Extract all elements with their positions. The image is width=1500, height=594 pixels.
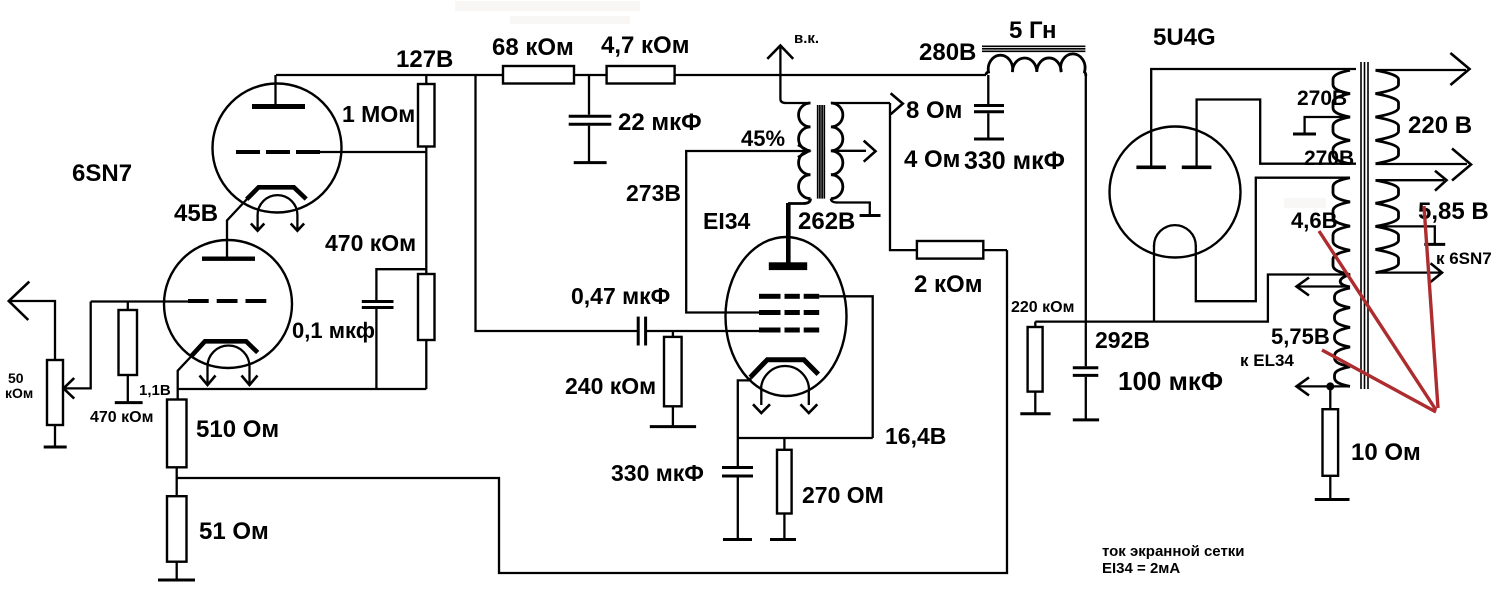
wire 292В node	[1035, 275, 1350, 322]
svg-text:270В: 270В	[1297, 87, 1347, 110]
filament right leg to 4,6В winding	[1196, 178, 1350, 302]
svg-text:45В: 45В	[174, 200, 218, 227]
resistor 470 кОм (V1a grid)	[418, 274, 435, 389]
resistor 510 Ом	[167, 400, 187, 468]
V1b heater arc	[208, 346, 250, 367]
V1a heater arc	[258, 195, 298, 215]
5U4G filament	[1154, 225, 1196, 246]
capacitor 330 мкФ (cathode)	[722, 468, 753, 540]
svg-text:470 кОм: 470 кОм	[90, 409, 153, 426]
svg-text:50: 50	[8, 370, 24, 386]
faint erased-text smudges top	[455, 1, 1326, 208]
wire cathode node to RC network (1,1В node)	[178, 388, 427, 390]
V1b cathode lead	[178, 355, 193, 400]
V1a grid dashes	[236, 150, 320, 154]
input arrow	[9, 282, 30, 320]
EL34 cathode lead	[738, 378, 751, 467]
svg-text:5U4G: 5U4G	[1153, 24, 1216, 51]
V1a heater arrow right	[291, 215, 304, 231]
wire input to pot top	[9, 301, 55, 360]
EL34 grid g1 dashes	[759, 328, 819, 333]
svg-text:330 мкФ: 330 мкФ	[611, 460, 704, 486]
svg-text:5,85 В: 5,85 В	[1418, 198, 1489, 225]
EL34 heater arrow left	[753, 390, 770, 413]
svg-text:EI34 = 2мА: EI34 = 2мА	[1102, 560, 1180, 577]
PT 5,85В winding	[1376, 180, 1399, 272]
ground 330 мкФ cathode	[723, 538, 752, 541]
tube V1a envelope	[213, 84, 342, 213]
PT 4,6В winding	[1333, 178, 1350, 287]
resistor 51 Ом	[167, 496, 187, 562]
ground 270 ОМ	[770, 538, 796, 541]
resistor 220 кОм	[1028, 322, 1043, 414]
svg-text:6SN7: 6SN7	[72, 160, 132, 187]
PT 220В primary winding	[1376, 70, 1399, 163]
svg-text:240 кОм: 240 кОм	[565, 373, 656, 399]
wire 2 кОм to bottom rail	[983, 249, 1007, 251]
OT primary feed from rail	[780, 75, 810, 103]
EL34 anode thick lead to OT	[786, 203, 791, 264]
svg-text:ток экранной сетки: ток экранной сетки	[1102, 543, 1245, 560]
red annotation line B (5,75В)	[1322, 350, 1436, 412]
svg-text:4,7 кОм: 4,7 кОм	[601, 32, 689, 59]
EL34 cathode bent bar	[750, 360, 818, 378]
pot wiper arrow	[64, 378, 75, 399]
red annotation line C (5,85В)	[1424, 206, 1438, 408]
arrow 8 Ом	[891, 93, 903, 114]
V1b heater arrow right	[242, 367, 258, 386]
note text ток экранной сетки	[1102, 543, 1245, 577]
OT secondary 4 Ом tap	[831, 150, 866, 152]
EL34 grid g2 dashes	[759, 310, 819, 315]
svg-text:470 кОм: 470 кОм	[325, 230, 416, 256]
svg-text:220 кОм: 220 кОм	[1011, 299, 1074, 316]
svg-text:2 кОм: 2 кОм	[914, 271, 982, 298]
V1a anode lead	[274, 75, 276, 105]
svg-text:270В: 270В	[1304, 147, 1354, 170]
wire 510/51 junction to bottom rail	[177, 250, 1007, 573]
V1b cathode bent bar	[192, 341, 258, 355]
EL34 heater arrow right	[801, 390, 818, 413]
arrow 45% tap	[798, 145, 809, 157]
resistor 470 кОм (grid leak)	[119, 302, 138, 376]
OT secondary bottom to ground	[831, 199, 881, 216]
svg-text:292В: 292В	[1095, 327, 1150, 353]
svg-text:4,6В: 4,6В	[1291, 208, 1337, 233]
wire V1a cathode to V1b anode (SRPP link)	[227, 199, 248, 258]
V1b heater arrow left	[200, 367, 216, 386]
PT HV winding 270В\+270В	[1333, 70, 1350, 163]
wire g3 to cathode	[819, 296, 873, 438]
svg-text:5,75В: 5,75В	[1271, 324, 1330, 349]
svg-text:270 ОМ: 270 ОМ	[802, 482, 884, 508]
arrow 220В bottom	[1376, 149, 1472, 181]
choke to rectifier wire	[1085, 75, 1087, 322]
capacitor 22 мкФ	[569, 75, 612, 163]
svg-text:0,1 мкф: 0,1 мкф	[292, 318, 375, 343]
top rail wire	[276, 74, 986, 76]
svg-text:10 Ом: 10 Ом	[1351, 439, 1421, 466]
ground 220 кОм	[1020, 412, 1050, 415]
resistor 68 кОм	[503, 66, 574, 84]
5U4G right anode bar	[1182, 166, 1212, 170]
resistor 4,7 кОм	[607, 66, 675, 84]
svg-text:1,1В: 1,1В	[139, 382, 171, 399]
svg-text:4 Ом: 4 Ом	[904, 146, 960, 173]
svg-text:51 Ом: 51 Ом	[199, 518, 269, 545]
svg-text:273В: 273В	[626, 180, 681, 206]
V1a heater arrow left	[251, 215, 264, 231]
EL34 grid g3 dashes	[759, 294, 819, 299]
ground 330 мкФ PSU	[974, 138, 1004, 141]
wire cathode node horizontal	[738, 437, 873, 439]
wire rail to coupling cap	[476, 75, 639, 331]
EL34 heater arc	[761, 366, 809, 390]
5U4G left anode wire to HV winding	[1151, 69, 1356, 167]
svg-text:к 6SN7: к 6SN7	[1436, 249, 1492, 268]
svg-text:EI34: EI34	[703, 208, 751, 234]
tube 5U4G envelope	[1110, 127, 1241, 258]
wire 8 Ом node to feedback resistor	[890, 103, 917, 250]
resistor 240 кОм	[664, 331, 682, 427]
V1b anode bar	[202, 257, 255, 261]
svg-text:в.к.: в.к.	[794, 30, 819, 47]
wire 45% tap to g2	[686, 151, 807, 313]
wire 510-51 junction	[176, 467, 178, 496]
svg-text:330 мкФ: 330 мкФ	[964, 147, 1065, 175]
ground pot	[44, 425, 67, 447]
5U4G left anode bar	[1136, 166, 1166, 170]
V1a grid wire to 1M junction	[320, 151, 426, 153]
arrow 5,75В winding bottom (к EL34)	[1296, 377, 1350, 395]
svg-text:5 Гн: 5 Гн	[1009, 17, 1057, 44]
svg-text:220 В: 220 В	[1408, 112, 1472, 139]
svg-text:280В: 280В	[919, 39, 976, 66]
arrow 4,6В winding bottom	[1296, 278, 1350, 296]
arrow 5,85В bottom	[1376, 263, 1443, 282]
OT primary winding	[799, 103, 811, 199]
ground 240 кОм	[650, 425, 696, 428]
svg-text:127В: 127В	[396, 46, 453, 73]
ground 51 Ом	[158, 562, 195, 580]
capacitor 0,47 мкФ	[638, 317, 760, 346]
PT 5,75В winding	[1335, 288, 1351, 386]
resistor 1 МОм	[418, 75, 435, 274]
choke 5 Гн winding	[986, 54, 1086, 76]
resistor 10 Ом	[1323, 386, 1339, 499]
svg-text:68 кОм: 68 кОм	[492, 34, 574, 61]
OT core	[818, 105, 825, 199]
tap к 6SN7	[1376, 226, 1446, 244]
V1b grid dashes	[188, 299, 266, 303]
svg-text:16,4В: 16,4В	[885, 423, 946, 449]
tube EL34 envelope	[726, 237, 847, 396]
ground 470 кОм	[115, 375, 143, 403]
ground 22 мкФ	[574, 161, 607, 164]
arrow в.к. (B+ feed)	[767, 45, 793, 75]
red annotation line A (4,6В)	[1319, 231, 1436, 410]
OT secondary top lead to 8 Ом node	[831, 102, 890, 104]
OT primary bottom lead	[788, 199, 811, 204]
label 50 кОм	[5, 370, 33, 401]
svg-text:510 Ом: 510 Ом	[196, 416, 279, 443]
svg-text:1 МОм: 1 МОм	[342, 101, 415, 127]
node dot 5,75В / 10 Ом junction	[1326, 382, 1334, 390]
arrow 220В top	[1376, 53, 1470, 85]
svg-text:22 мкФ: 22 мкФ	[618, 109, 702, 136]
svg-text:к EL34: к EL34	[1240, 351, 1294, 370]
filament left leg to 292В node	[1153, 245, 1155, 322]
resistor 270 ОМ	[777, 438, 792, 540]
OT secondary winding	[831, 103, 843, 199]
capacitor 0,1 мкф	[362, 269, 427, 389]
svg-text:45%: 45%	[741, 126, 785, 151]
svg-text:8 Ом: 8 Ом	[906, 97, 962, 124]
ground 10 Ом	[1315, 498, 1350, 501]
5U4G right anode wire to HV winding bottom	[1197, 100, 1356, 168]
svg-text:100 мкФ: 100 мкФ	[1118, 366, 1223, 396]
resistor 2 кОм	[917, 241, 983, 259]
svg-text:262В: 262В	[798, 208, 855, 235]
choke core	[982, 46, 1085, 51]
wire grid line to tube V1b	[91, 300, 188, 302]
V1a cathode bent bar	[247, 187, 307, 199]
capacitor 100 мкФ	[1073, 322, 1099, 420]
arrow 4 Ом	[864, 141, 876, 162]
HV center tap to ground	[1293, 117, 1350, 134]
capacitor 330 мкФ (PSU)	[974, 75, 1004, 139]
potentiometer 50 кОм body	[47, 360, 63, 425]
EL34 anode bar	[769, 262, 807, 270]
wire wiper to grid line	[64, 302, 91, 389]
arrow 5,85В top	[1376, 171, 1447, 191]
ground 100 мкФ	[1073, 418, 1099, 421]
svg-text:кОм: кОм	[5, 385, 33, 401]
tube V1b envelope	[164, 240, 292, 368]
svg-text:0,47 мкФ: 0,47 мкФ	[571, 283, 670, 309]
V1a anode bar	[252, 104, 305, 109]
PT core	[1361, 62, 1368, 389]
